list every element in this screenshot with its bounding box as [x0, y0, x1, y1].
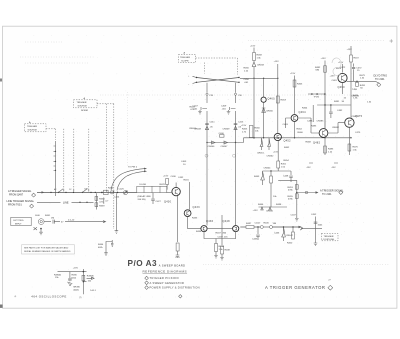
svg-text:C432: C432 [178, 177, 184, 179]
svg-text:C483: C483 [307, 121, 313, 123]
svg-text:R448: R448 [276, 204, 282, 206]
svg-text:R483: R483 [328, 149, 334, 151]
svg-text:-15V: -15V [306, 167, 311, 169]
svg-text:A TRIGGER GENERATOR: A TRIGGER GENERATOR [265, 285, 325, 290]
svg-text:Q448: Q448 [223, 220, 231, 223]
svg-text:R468: R468 [306, 142, 312, 144]
svg-text:R485: R485 [311, 126, 317, 128]
svg-text:+15V: +15V [73, 268, 79, 270]
svg-text:R429: R429 [160, 184, 166, 186]
svg-text:R462: R462 [284, 147, 290, 149]
svg-text:+15V: +15V [273, 151, 279, 153]
svg-text:A TRIGGER SIGNAL: A TRIGGER SIGNAL [8, 190, 32, 193]
svg-text:CR462: CR462 [267, 156, 275, 158]
svg-text:Q460: Q460 [268, 98, 276, 101]
svg-text:R431: R431 [184, 180, 190, 182]
svg-text:R490B: R490B [87, 275, 94, 277]
svg-text:SLOPE: SLOPE [181, 60, 189, 62]
svg-text:Q482: Q482 [313, 142, 321, 145]
svg-text:CR460: CR460 [266, 111, 274, 113]
svg-text:R460: R460 [255, 128, 261, 130]
svg-text:TO PIN 2: TO PIN 2 [128, 167, 138, 169]
svg-text:(7): (7) [79, 297, 82, 299]
svg-text:TRIGGER: TRIGGER [324, 236, 334, 238]
svg-text:R424: R424 [108, 188, 114, 190]
svg-text:C448: C448 [283, 176, 289, 178]
svg-text:R438: R438 [99, 199, 105, 201]
svg-text:CR403: CR403 [189, 128, 197, 130]
svg-text:-15V: -15V [331, 167, 336, 169]
svg-text:EXT TRIG: EXT TRIG [14, 220, 24, 222]
svg-text:R438: R438 [225, 250, 231, 252]
svg-text:R464: R464 [297, 129, 303, 131]
svg-text:R466: R466 [298, 132, 304, 134]
svg-text:LINE: LINE [63, 201, 69, 204]
svg-text:R444: R444 [98, 244, 104, 246]
svg-text:12-13: 12-13 [175, 257, 180, 259]
svg-text:CR485: CR485 [317, 121, 325, 123]
svg-text:A SWEEP BOARD: A SWEEP BOARD [159, 265, 186, 268]
svg-text:R490A: R490A [54, 273, 61, 276]
svg-text:REFERENCE DIAGRAMS: REFERENCE DIAGRAMS [143, 269, 188, 273]
svg-text:+15V: +15V [330, 76, 336, 78]
svg-text:R465: R465 [297, 84, 303, 86]
svg-text:CR444: CR444 [264, 168, 272, 170]
svg-text:C425: C425 [119, 188, 125, 190]
svg-text:Q436: Q436 [206, 220, 214, 223]
svg-text:+15V: +15V [290, 73, 296, 75]
svg-text:C472: C472 [356, 67, 362, 69]
svg-text:R451: R451 [281, 164, 287, 166]
svg-text:+15V: +15V [347, 49, 353, 51]
svg-text:TP490: TP490 [314, 97, 320, 99]
svg-text:+15V: +15V [250, 46, 256, 48]
svg-text:R445: R445 [264, 223, 270, 225]
svg-text:TRIGGER: TRIGGER [27, 126, 37, 128]
svg-text:CR475: CR475 [352, 116, 360, 118]
svg-text:FROM Q497: FROM Q497 [9, 194, 24, 197]
svg-text:R439: R439 [99, 206, 105, 208]
svg-text:R481: R481 [334, 101, 340, 103]
svg-text:C411: C411 [210, 122, 216, 124]
svg-text:R437: R437 [216, 233, 222, 235]
svg-text:Q433: Q433 [193, 206, 201, 209]
svg-text:J440: J440 [35, 215, 41, 217]
svg-text:R456: R456 [244, 68, 250, 70]
svg-text:CR406: CR406 [208, 146, 216, 148]
svg-text:+15V: +15V [253, 210, 259, 212]
svg-text:+15V: +15V [241, 125, 247, 127]
svg-text:SERIAL NUMBER RANGES OF PARTS: SERIAL NUMBER RANGES OF PARTS MARKED [24, 250, 71, 253]
svg-text:144-1: 144-1 [90, 290, 96, 292]
svg-text:A SWEEP GENERATOR: A SWEEP GENERATOR [150, 281, 185, 285]
svg-text:C445: C445 [252, 239, 258, 241]
svg-text:Q430: Q430 [164, 201, 172, 204]
svg-text:C475: C475 [355, 132, 361, 134]
svg-text:CR482: CR482 [332, 127, 340, 129]
svg-text:R476: R476 [353, 147, 359, 149]
svg-text:NORM: NORM [81, 110, 88, 112]
svg-text:CR461: CR461 [257, 153, 265, 155]
svg-text:R472: R472 [354, 58, 360, 60]
svg-text:R458: R458 [257, 55, 263, 57]
svg-text:T490: T490 [352, 89, 358, 91]
svg-text:C481: C481 [332, 80, 338, 82]
svg-text:SOURCE: SOURCE [78, 106, 88, 108]
svg-text:C406: C406 [219, 133, 225, 135]
svg-text:POWER SUPPLY & DISTRIBUTION: POWER SUPPLY & DISTRIBUTION [150, 286, 200, 290]
svg-text:SR490: SR490 [73, 287, 80, 289]
svg-text:INPUT: INPUT [15, 224, 22, 226]
svg-text:LINE TRIGGER SIGNAL: LINE TRIGGER SIGNAL [7, 200, 35, 203]
svg-text:Q490: Q490 [338, 86, 346, 89]
svg-text:+15V: +15V [274, 61, 280, 63]
svg-text:R446: R446 [258, 204, 264, 206]
svg-text:R443: R443 [254, 176, 260, 178]
svg-text:TRIGGER PICKOFF: TRIGGER PICKOFF [150, 276, 180, 280]
svg-text:SEE PARTS LIST FOR EARLIER VAL: SEE PARTS LIST FOR EARLIER VALUES AND [24, 247, 69, 250]
svg-text:Q464: Q464 [299, 111, 307, 114]
svg-text:464 OSCILLOSCOPE: 464 OSCILLOSCOPE [31, 295, 66, 299]
svg-text:R434: R434 [196, 231, 202, 233]
svg-text:Q452: Q452 [284, 140, 292, 143]
svg-text:+15V: +15V [163, 176, 169, 178]
svg-text:C447: C447 [291, 215, 297, 217]
svg-text:R453: R453 [281, 100, 287, 102]
svg-text:FROM T601: FROM T601 [8, 204, 22, 207]
svg-text:R490: R490 [72, 275, 78, 277]
svg-text:CR446: CR446 [266, 211, 274, 213]
svg-text:C446: C446 [274, 233, 280, 235]
svg-text:C482: C482 [337, 110, 343, 112]
svg-text:TO J101: TO J101 [322, 193, 332, 196]
svg-text:R433: R433 [192, 218, 198, 220]
svg-text:CR409: CR409 [223, 128, 231, 130]
svg-text:1M: 1M [51, 218, 54, 220]
svg-text:C424: C424 [114, 197, 120, 199]
svg-text:R403: R403 [190, 107, 196, 109]
svg-text:R447: R447 [246, 223, 252, 225]
svg-text:COUPLING: COUPLING [323, 239, 335, 241]
svg-text:TRIGGER: TRIGGER [77, 102, 87, 104]
svg-text:C456: C456 [244, 79, 250, 81]
svg-text:C444: C444 [255, 223, 261, 225]
svg-text:TRIGGER: TRIGGER [180, 57, 190, 59]
svg-text:R455: R455 [242, 129, 248, 131]
svg-text:C413: C413 [238, 122, 244, 124]
svg-text:CR407: CR407 [221, 146, 229, 148]
svg-text:SOURCE: SOURCE [28, 130, 38, 132]
svg-text:C403: C403 [181, 161, 187, 163]
svg-text:C409: C409 [221, 106, 227, 108]
svg-text:C427: C427 [156, 201, 162, 203]
svg-text:P/O A3: P/O A3 [128, 259, 158, 268]
svg-text:R450: R450 [287, 243, 293, 245]
svg-text:C463: C463 [283, 124, 289, 126]
svg-text:(A-B): (A-B) [74, 288, 79, 291]
svg-text:C430: C430 [171, 176, 177, 178]
svg-text:0.1-10: 0.1-10 [68, 220, 75, 222]
svg-text:R464: R464 [302, 108, 308, 110]
svg-text:(DELAY LINE: (DELAY LINE [138, 195, 152, 198]
svg-text:CR458: CR458 [257, 65, 265, 67]
svg-text:CR447: CR447 [286, 235, 294, 237]
svg-text:R454: R454 [284, 160, 290, 162]
svg-text:C437 .001: C437 .001 [218, 237, 229, 239]
svg-text:200 NS): 200 NS) [138, 199, 146, 201]
svg-text:+15V: +15V [321, 58, 327, 60]
svg-text:DL430: DL430 [140, 184, 147, 186]
svg-text:C452: C452 [311, 214, 317, 216]
svg-text:TO J101: TO J101 [375, 78, 385, 81]
